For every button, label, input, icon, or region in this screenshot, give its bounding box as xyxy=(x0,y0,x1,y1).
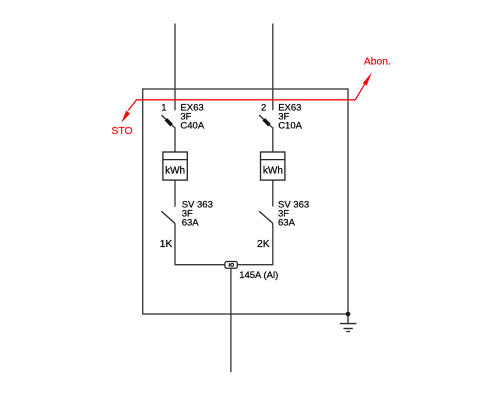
svg-text:1K: 1K xyxy=(160,239,173,250)
svg-text:2K: 2K xyxy=(257,239,270,250)
svg-text:kWh: kWh xyxy=(165,166,185,177)
kWh meter P1 xyxy=(163,152,187,180)
ground symbol xyxy=(347,314,349,324)
wire: breaker 1 to meter 1 xyxy=(174,127,176,152)
wire: switch 2 down to bus xyxy=(237,223,272,264)
fuse-switch 2 EX63 blade xyxy=(259,115,272,127)
arrowhead Abon side xyxy=(363,72,372,85)
svg-text:145A (Al): 145A (Al) xyxy=(239,270,278,281)
node: PE junction dot xyxy=(346,312,351,317)
wire: branch 2 incoming feeder (top) xyxy=(272,24,274,111)
wire: outgoing cable (bottom stub) xyxy=(230,268,232,372)
svg-text:Abon.: Abon. xyxy=(364,57,391,68)
wire: meter 1 to switch 1 xyxy=(174,180,176,207)
svg-text:63A: 63A xyxy=(278,217,296,228)
svg-text:STO: STO xyxy=(111,126,132,137)
kWh meter P2 xyxy=(261,152,285,180)
svg-text:C10A: C10A xyxy=(278,120,302,131)
switch SV363 no.2 blade xyxy=(259,211,273,223)
switch SV363 no.1 blade xyxy=(161,211,175,223)
fuse-switch 2 fuse body (thick segment) xyxy=(264,119,270,125)
fuse-switch 1 fuse body (thick segment) xyxy=(166,119,172,125)
wire: breaker 2 to meter 2 xyxy=(272,127,274,152)
wire: branch 1 incoming feeder (top) xyxy=(174,24,176,111)
red boundary line (ownership boundary) xyxy=(128,84,364,110)
svg-text:2: 2 xyxy=(261,102,266,113)
svg-text:kWh: kWh xyxy=(263,166,283,177)
svg-text:C40A: C40A xyxy=(180,120,204,131)
fuse-switch 1 EX63 blade xyxy=(162,115,175,127)
wire: meter 2 to switch 2 xyxy=(272,180,274,206)
svg-text:1: 1 xyxy=(161,102,166,113)
wire: switch 1 down to bus xyxy=(175,223,225,264)
arrowhead STO side xyxy=(121,110,130,123)
cable marker box (145A Al) xyxy=(225,262,237,269)
svg-text:63A: 63A xyxy=(182,217,200,228)
enclosure rectangle (distribution board outline) xyxy=(143,89,348,314)
